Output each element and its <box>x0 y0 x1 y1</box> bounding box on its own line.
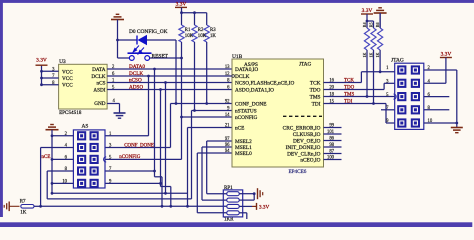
svg-text:3.3V: 3.3V <box>176 2 187 8</box>
svg-text:12: 12 <box>225 72 230 77</box>
svg-text:TCK: TCK <box>310 81 321 87</box>
svg-text:EP4CE6: EP4CE6 <box>289 169 307 175</box>
svg-text:3.3V: 3.3V <box>36 58 47 64</box>
svg-text:R2: R2 <box>198 28 204 33</box>
svg-text:1K: 1K <box>210 34 216 39</box>
svg-text:R3: R3 <box>210 28 216 33</box>
svg-text:RESET: RESET <box>152 54 169 60</box>
svg-text:VCC: VCC <box>62 83 73 89</box>
svg-text:nCE: nCE <box>235 126 244 132</box>
svg-text:CONF_DONE: CONF_DONE <box>124 143 154 148</box>
svg-text:AS: AS <box>82 124 89 130</box>
svg-text:DCLK: DCLK <box>235 74 250 80</box>
svg-text:1K: 1K <box>368 53 373 58</box>
svg-text:D0 CONFIG_OK: D0 CONFIG_OK <box>129 29 168 35</box>
svg-text:CONF_DONE: CONF_DONE <box>235 102 267 108</box>
svg-text:U3: U3 <box>59 59 66 65</box>
svg-text:nCS: nCS <box>97 81 106 87</box>
svg-text:GND: GND <box>94 101 105 107</box>
svg-text:nCSO: nCSO <box>129 77 142 83</box>
svg-text:JTAG: JTAG <box>299 61 312 67</box>
svg-text:3.3V: 3.3V <box>362 8 373 14</box>
svg-text:nCE: nCE <box>42 155 51 160</box>
svg-text:EPCS4S18: EPCS4S18 <box>59 111 82 116</box>
svg-text:R5: R5 <box>368 23 373 28</box>
svg-text:nCEO,IO: nCEO,IO <box>300 158 320 164</box>
svg-text:3.3V: 3.3V <box>259 204 269 210</box>
svg-text:101: 101 <box>327 130 335 135</box>
svg-text:VCC: VCC <box>62 76 73 82</box>
svg-text:ASDO,DATA1,IO: ASDO,DATA1,IO <box>235 88 274 94</box>
svg-text:R4: R4 <box>362 23 367 28</box>
svg-text:DATA0: DATA0 <box>129 64 145 70</box>
svg-text:DCLK: DCLK <box>129 71 143 77</box>
svg-text:1K: 1K <box>362 53 367 58</box>
svg-text:87: 87 <box>329 150 334 155</box>
svg-text:U1B: U1B <box>232 54 243 60</box>
svg-text:100: 100 <box>327 156 335 161</box>
svg-text:R6: R6 <box>375 23 380 28</box>
svg-text:86: 86 <box>329 137 334 142</box>
svg-text:10K: 10K <box>198 34 207 39</box>
svg-text:R7: R7 <box>20 199 26 204</box>
svg-text:1K: 1K <box>375 53 380 58</box>
svg-text:nSTATUS: nSTATUS <box>235 109 257 115</box>
svg-text:ADSO: ADSO <box>129 84 143 90</box>
svg-text:JTAG: JTAG <box>391 58 404 64</box>
svg-text:98: 98 <box>329 143 334 148</box>
svg-text:1KR: 1KR <box>224 218 234 223</box>
svg-text:13: 13 <box>225 65 230 70</box>
svg-text:3.3V: 3.3V <box>441 52 452 58</box>
svg-text:ASDI: ASDI <box>93 88 105 94</box>
svg-text:10K: 10K <box>185 34 194 39</box>
svg-text:INIT_DONE,IO: INIT_DONE,IO <box>286 145 321 151</box>
svg-text:DCLK: DCLK <box>91 74 105 80</box>
svg-text:CRC_ERROR,IO: CRC_ERROR,IO <box>283 126 321 132</box>
svg-text:DATA0,IO: DATA0,IO <box>235 67 258 73</box>
svg-text:NCSO,FLASHnCE,nCE,IO: NCSO,FLASHnCE,nCE,IO <box>235 81 294 87</box>
svg-text:nCONFIG: nCONFIG <box>119 155 141 160</box>
svg-text:TDI: TDI <box>312 102 321 108</box>
svg-text:DEV_OE,IO: DEV_OE,IO <box>293 139 321 145</box>
svg-text:R1: R1 <box>185 28 191 33</box>
svg-text:TMS: TMS <box>310 95 321 101</box>
svg-text:MSEL0: MSEL0 <box>235 151 252 157</box>
svg-text:99: 99 <box>329 124 334 129</box>
svg-text:CLKUSR,IO: CLKUSR,IO <box>293 132 321 138</box>
svg-text:nCONFIG: nCONFIG <box>235 115 258 121</box>
svg-text:TDO: TDO <box>310 88 321 94</box>
svg-text:VCC: VCC <box>62 69 73 75</box>
svg-text:DATA: DATA <box>92 67 106 73</box>
svg-text:1K: 1K <box>20 211 27 216</box>
